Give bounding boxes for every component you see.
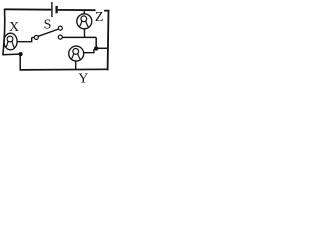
lamp Y bottom lead (75, 61, 77, 70)
svg-text:Y: Y (78, 72, 88, 84)
wire jog to node A (2, 53, 19, 56)
switch S pivot terminal (34, 35, 38, 39)
switch S fixed terminal (58, 35, 62, 39)
wire node A down to bottom border (19, 54, 21, 70)
node A junction dot (19, 52, 23, 56)
wire top border left segment (4, 8, 51, 10)
svg-text:Z: Z (95, 10, 104, 25)
wire bottom border (20, 68, 109, 71)
switch S blade (open) (38, 29, 58, 36)
lamp Z circle (77, 14, 92, 29)
wire right border (107, 10, 110, 70)
switch S blade end terminal (58, 26, 62, 30)
lamp Y filament legs (71, 54, 80, 60)
lamp Y circle (69, 46, 84, 61)
battery B1 long plate (51, 2, 53, 17)
wire node B to lamp Y right lead (83, 49, 94, 53)
lamp Z top lead (83, 10, 85, 14)
lamp X filament legs (6, 41, 15, 48)
wire top border right segment (58, 9, 96, 11)
wire switch to right turn (62, 36, 96, 38)
wire top border corner stub (104, 10, 109, 12)
node B junction dot (94, 46, 98, 50)
svg-text:S: S (44, 18, 52, 33)
lamp X circle (4, 33, 17, 50)
lamp Y filament loop (73, 49, 79, 55)
lamp Z filament legs (79, 21, 88, 27)
battery B1 short plate (55, 6, 57, 13)
wire node B to right border (96, 47, 108, 49)
svg-text:X: X (9, 20, 19, 35)
lamp X filament loop (7, 36, 13, 42)
lamp Z filament loop (81, 16, 87, 22)
wire lamp X to switch (17, 37, 34, 42)
lamp Z bottom lead (84, 29, 86, 38)
wire down to node B (95, 37, 97, 47)
wire left border (3, 9, 5, 55)
